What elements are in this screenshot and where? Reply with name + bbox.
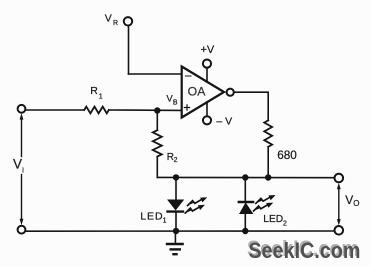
node VB junction	[154, 107, 160, 113]
svg-text:2: 2	[283, 221, 287, 228]
wire LED2 anode	[244, 214, 246, 232]
wire VR vertical	[128, 26, 130, 74]
terminal input top-left	[18, 105, 26, 113]
node LED1 bottom	[173, 228, 179, 234]
LED2 emission arrows	[254, 195, 276, 211]
wire input to R1	[26, 109, 85, 111]
svg-text:680: 680	[277, 148, 297, 162]
op-amp output bubble	[227, 89, 234, 96]
terminal bottom-left	[18, 226, 26, 234]
svg-text:OA: OA	[188, 85, 207, 99]
svg-text:2: 2	[174, 157, 178, 164]
svg-text:R: R	[113, 20, 118, 27]
terminal bottom-right	[335, 226, 344, 235]
wire LED2 cathode	[244, 178, 246, 201]
svg-text:1: 1	[99, 94, 103, 101]
svg-text:– V: – V	[216, 115, 232, 127]
+V stub	[206, 68, 208, 82]
resistor 680	[264, 120, 272, 146]
LED1 diode	[168, 200, 183, 210]
wire R1 to op-amp noninverting input	[109, 109, 181, 111]
noninverting input mark	[184, 105, 189, 110]
node 680 bottom	[265, 174, 271, 180]
LED1 emission arrows	[185, 197, 207, 213]
terminal VR	[124, 17, 132, 25]
node LED2 top	[242, 174, 248, 180]
svg-text:+V: +V	[201, 44, 215, 56]
svg-text:B: B	[173, 99, 178, 106]
-V stub	[206, 102, 208, 116]
svg-text:1: 1	[163, 218, 167, 225]
wire R2 bottom to mid rail	[156, 157, 158, 178]
VO measurement arrow	[337, 183, 341, 226]
terminal +V	[203, 60, 211, 68]
wire bottom rail	[26, 230, 335, 232]
op-amp U1 triangle	[182, 67, 224, 118]
svg-text:V: V	[345, 193, 353, 207]
resistor R2	[153, 130, 162, 156]
wire output to 680	[234, 92, 268, 120]
ground	[174, 231, 176, 244]
inverting input mark	[185, 75, 191, 77]
svg-text:LED: LED	[140, 211, 163, 223]
wire LED1 cathode	[175, 213, 177, 232]
svg-text:V: V	[13, 157, 22, 172]
node LED2 bottom	[242, 228, 248, 234]
wire R2 branch top	[156, 111, 158, 131]
terminal output top-right	[335, 174, 344, 183]
LED2 diode (reversed)	[239, 201, 253, 203]
svg-text:LED: LED	[263, 214, 283, 225]
wire 680 bottom	[267, 147, 269, 177]
svg-text:SeekIC.com: SeekIC.com	[249, 238, 361, 263]
VI measurement arrow	[20, 113, 24, 225]
wire LED1 anode	[175, 177, 177, 200]
svg-text:R: R	[90, 85, 98, 97]
svg-text:O: O	[353, 199, 359, 208]
terminal -V	[203, 116, 211, 124]
resistor R1	[84, 107, 109, 114]
svg-text:I: I	[22, 166, 24, 175]
wire VR to inverting input	[129, 73, 182, 75]
node LED1 top	[173, 174, 179, 180]
wire mid rail	[157, 176, 334, 178]
svg-text:V: V	[105, 13, 112, 25]
